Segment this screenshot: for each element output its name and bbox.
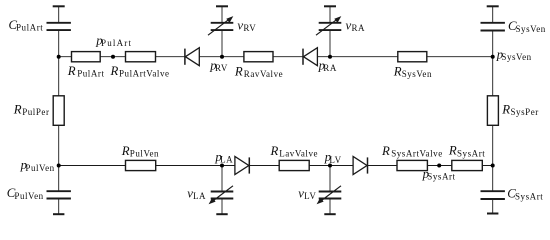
label p_PulVen	[20, 158, 55, 173]
svg-text:SysPer: SysPer	[511, 107, 539, 117]
svg-text:R: R	[270, 144, 279, 158]
capacitor C_SysVen	[481, 23, 505, 31]
wire C_PulVen branch	[58, 166, 60, 215]
svg-text:PulArt: PulArt	[77, 69, 104, 79]
label p_SysArt	[422, 167, 456, 182]
label p_LV	[324, 150, 342, 165]
terminal bar (ground) below v_LA	[216, 213, 227, 215]
wire v_RA branch	[329, 6, 331, 56]
label R_SysVen	[393, 64, 432, 79]
label v_RA	[346, 19, 366, 34]
label v_LV	[298, 186, 316, 201]
variable capacitor v_RV	[208, 16, 233, 35]
wire C_SysVen branch	[492, 6, 494, 56]
label R_LavValve	[270, 144, 319, 159]
svg-text:LA: LA	[193, 191, 206, 201]
resistor R_PulPer	[53, 96, 64, 126]
diode D3 (mitral/LA valve, pointing right)	[235, 157, 249, 175]
svg-text:RA: RA	[323, 63, 337, 73]
resistor R_SysPer	[487, 96, 498, 126]
capacitor C_SysArt	[481, 191, 505, 199]
node p_RV	[220, 55, 224, 59]
node junction C_PulArt	[57, 55, 61, 59]
resistor R_RavValve	[244, 52, 273, 62]
terminal bar (ground) above v_RA	[324, 5, 336, 7]
svg-text:PulVen: PulVen	[25, 163, 54, 173]
terminal bar (ground) below C_SysArt	[487, 213, 498, 215]
variable capacitor v_LV	[317, 186, 342, 204]
svg-text:RA: RA	[352, 23, 366, 33]
label R_SysArt	[448, 144, 485, 159]
resistor R_SysVen	[398, 52, 427, 62]
svg-text:LavValve: LavValve	[279, 149, 318, 159]
wire v_RV branch	[221, 6, 223, 56]
label R_PulArtValve	[110, 64, 170, 79]
svg-text:RV: RV	[215, 63, 228, 73]
node p_SysVen	[491, 55, 495, 59]
label R_SysPer	[501, 102, 539, 117]
wire bottom horizontal	[59, 165, 493, 167]
label R_RavValve	[234, 65, 283, 80]
variable capacitor v_LA	[209, 186, 234, 204]
terminal bar (ground) above v_RV	[216, 5, 228, 7]
label v_LA	[187, 186, 206, 201]
variable capacitor v_RA	[316, 16, 341, 35]
label C_PulArt	[9, 18, 44, 33]
label C_PulVen	[7, 186, 44, 201]
svg-text:PulArtValve: PulArtValve	[119, 69, 170, 79]
svg-text:PulVen: PulVen	[130, 148, 159, 158]
label R_PulPer	[13, 103, 50, 118]
diode D1 (pulmonary artery valve, pointing left)	[185, 48, 199, 66]
svg-text:R: R	[381, 144, 390, 158]
label R_PulVen	[121, 144, 159, 159]
node p_PulVen	[57, 164, 61, 168]
terminal bar (ground) above C_PulArt	[53, 5, 65, 7]
label v_RV	[237, 19, 256, 34]
svg-text:LV: LV	[304, 191, 316, 201]
svg-text:SysArt: SysArt	[427, 172, 455, 182]
svg-text:SysArtValve: SysArtValve	[391, 149, 443, 159]
label p_RV	[209, 58, 228, 73]
svg-text:R: R	[110, 64, 119, 78]
svg-text:R: R	[13, 103, 22, 117]
svg-text:R: R	[121, 144, 130, 158]
svg-text:SysVen: SysVen	[501, 52, 531, 62]
diode D2 (tricuspid/RA valve, pointing left)	[303, 48, 317, 66]
capacitor C_PulArt	[47, 23, 71, 30]
resistor R_SysArtValve	[397, 160, 427, 170]
svg-text:PulPer: PulPer	[22, 107, 49, 117]
wire left vertical	[58, 57, 60, 166]
label p_LA	[214, 150, 233, 165]
resistor R_LavValve	[279, 160, 309, 170]
node junction C_SysArt	[491, 164, 495, 168]
node p_SysArt	[437, 164, 441, 168]
svg-text:SysArt: SysArt	[457, 148, 485, 158]
label p_PulArt	[95, 33, 132, 48]
svg-text:RV: RV	[243, 23, 256, 33]
svg-text:SysArt: SysArt	[515, 191, 543, 201]
wire v_LA branch	[221, 166, 223, 215]
resistor R_PulVen	[126, 160, 156, 170]
wire C_PulArt branch	[58, 6, 60, 56]
label R_SysArtValve	[381, 144, 443, 159]
resistor R_PulArt	[72, 52, 101, 62]
wire top horizontal	[59, 56, 493, 58]
terminal bar (ground) below C_PulVen	[53, 213, 64, 215]
label p_RA	[318, 58, 337, 73]
node p_LA	[220, 164, 224, 168]
label C_SysArt	[507, 187, 543, 202]
svg-text:PulArt: PulArt	[16, 22, 43, 32]
wire right vertical	[492, 57, 494, 166]
svg-text:LA: LA	[220, 155, 233, 165]
svg-text:SysVen: SysVen	[516, 24, 546, 34]
label R_PulArt	[67, 64, 105, 79]
label C_SysVen	[508, 19, 546, 34]
svg-text:RavValve: RavValve	[244, 69, 283, 79]
capacitor C_PulVen	[47, 191, 71, 198]
svg-text:R: R	[501, 102, 510, 116]
svg-text:R: R	[234, 65, 243, 79]
resistor R_PulArtValve	[126, 52, 156, 62]
wire C_SysArt branch	[492, 166, 494, 214]
node p_RA	[328, 55, 332, 59]
terminal bar (ground) above C_SysVen	[487, 5, 499, 7]
svg-text:PulArt: PulArt	[101, 38, 132, 48]
diode D4 (aortic valve, pointing right)	[353, 157, 367, 175]
svg-text:R: R	[67, 64, 76, 78]
label p_SysVen	[496, 47, 532, 62]
node p_PulArt	[111, 55, 115, 59]
resistor R_SysArt	[452, 160, 483, 170]
wire v_LV branch	[329, 166, 331, 215]
svg-text:PulVen: PulVen	[14, 191, 43, 201]
svg-text:LV: LV	[329, 155, 341, 165]
terminal bar (ground) below v_LV	[324, 213, 335, 215]
node p_LV	[328, 164, 332, 168]
svg-text:SysVen: SysVen	[402, 69, 432, 79]
svg-text:R: R	[448, 144, 457, 158]
svg-text:R: R	[393, 64, 402, 78]
